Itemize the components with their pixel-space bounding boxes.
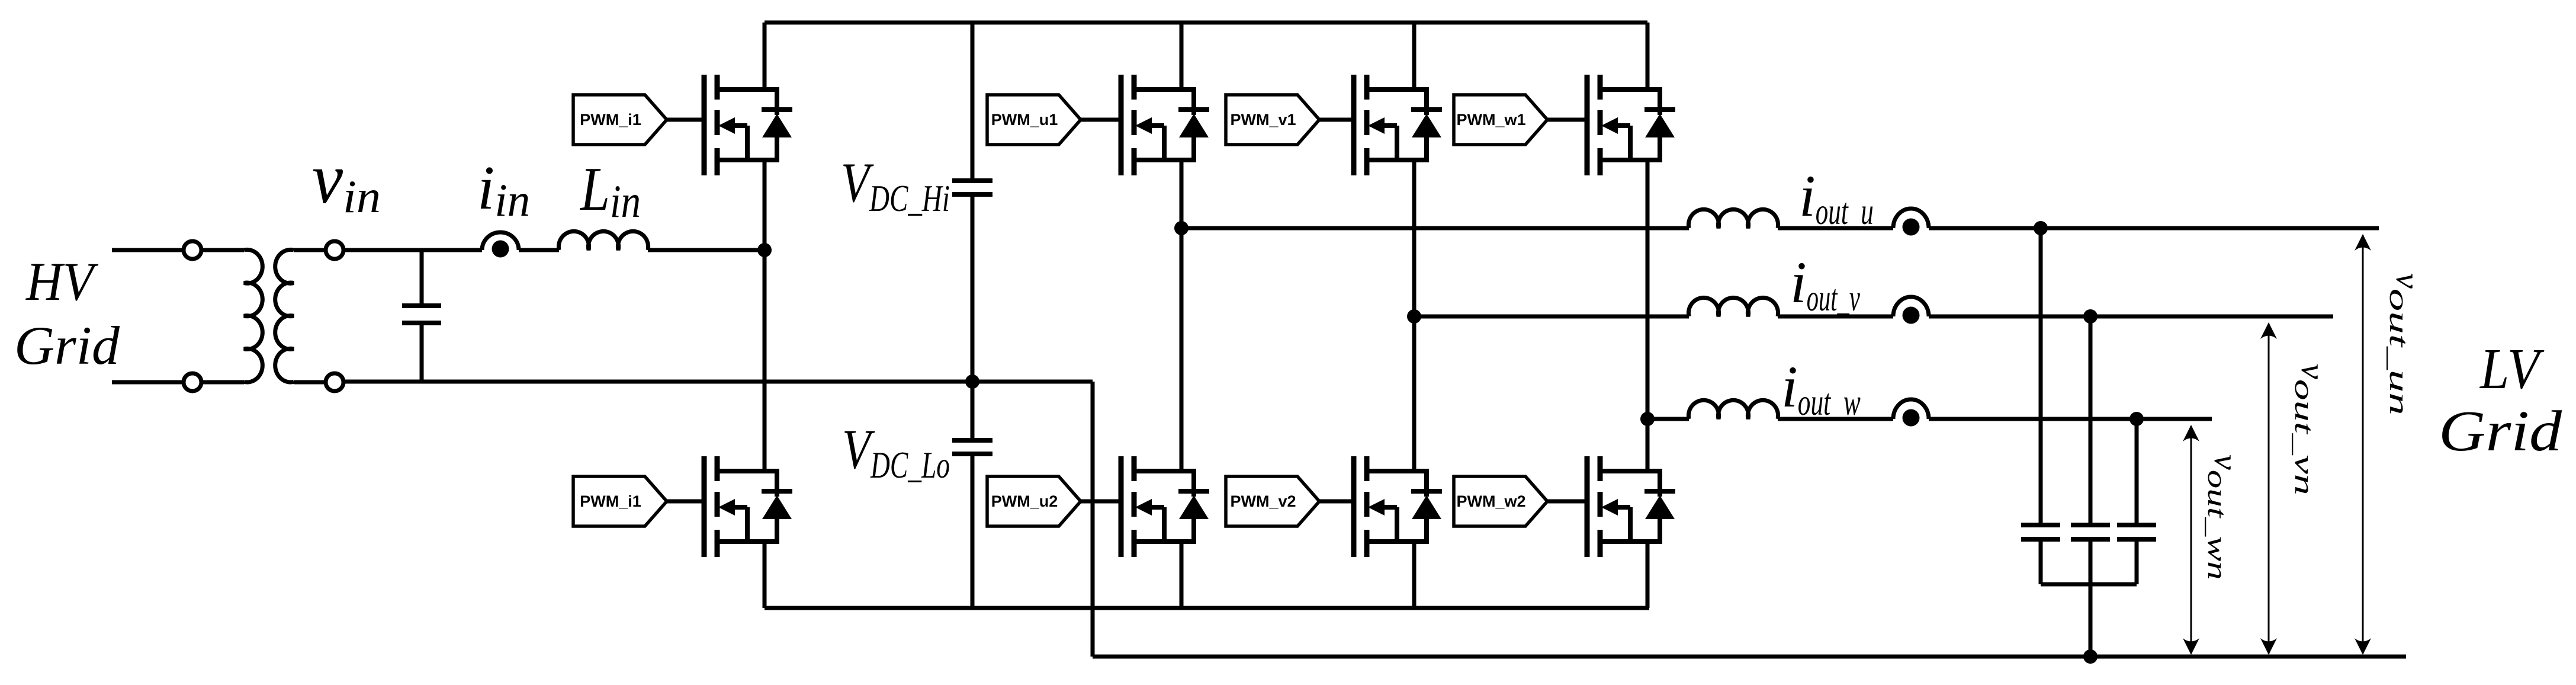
label v_out_wn (2202, 454, 2246, 580)
wire inductor to sensor v (1778, 315, 1893, 319)
wire source Q7 to phase node (1646, 160, 1650, 419)
wire source Q5 to phase node (1412, 160, 1417, 316)
current sensor i_in hop (482, 232, 519, 250)
node A junction (757, 243, 772, 257)
transistor Q3 u-phase high-side MOSFET (1121, 75, 1209, 175)
wire gate w2 (1547, 500, 1587, 504)
PWM_u2 tag (987, 476, 1081, 526)
svg-text:PWM_i1: PWM_i1 (580, 111, 641, 129)
wire top rail to C_DC_Hi (971, 23, 975, 178)
capacitor C_u lead bottom (2039, 542, 2043, 584)
PWM_w2 tag (1454, 476, 1547, 526)
PWM_v2 tag (1226, 476, 1319, 526)
wire source Q3 to phase node (1180, 160, 1184, 228)
wire gate i1 upper (667, 118, 704, 122)
wire secondary top to terminal (294, 248, 326, 252)
svg-text:LV: LV (2479, 337, 2545, 401)
wire drain Q7 to top rail (1646, 23, 1650, 89)
transistor Q8 w-phase low-side MOSFET (1587, 456, 1675, 557)
svg-text:HV: HV (25, 251, 99, 312)
capacitor C_in lead top (420, 250, 424, 303)
arrow v_out_wn (2183, 425, 2199, 655)
transistor Q5 v-phase high-side MOSFET (1354, 75, 1442, 175)
wire HV bottom lead (112, 380, 184, 385)
svg-text:vout_vn: vout_vn (2289, 364, 2333, 495)
svg-text:iout_v: iout_v (1790, 249, 1860, 319)
svg-text:PWM_u2: PWM_u2 (991, 492, 1058, 510)
capacitor C_w lead bottom (2135, 542, 2139, 584)
wire phase w to inductor (1647, 417, 1689, 421)
wire drain Q3 to top rail (1180, 23, 1184, 89)
wire source Q1 to node A (763, 160, 767, 250)
inductor L_in (558, 231, 648, 250)
label i_in (477, 153, 530, 226)
wire C_DC_Lo to bottom rail (971, 456, 975, 608)
node cap w junction (2129, 412, 2144, 426)
node phase w (1640, 412, 1655, 426)
wire sensor to L_in (519, 248, 559, 252)
svg-text:VDC_Hi: VDC_Hi (841, 151, 950, 219)
capacitor C_DC_Hi (952, 181, 993, 194)
transistor Q7 w-phase high-side MOSFET (1587, 75, 1675, 175)
wire secondary bottom to terminal (294, 380, 326, 385)
svg-text:vin: vin (312, 139, 381, 222)
wire drain Q2 to node A (763, 250, 767, 471)
transformer T1 secondary winding (275, 249, 294, 382)
wire gate u2 (1081, 500, 1121, 504)
label v_out_un (2384, 273, 2427, 415)
wire source Q4 to bottom rail (1180, 542, 1184, 608)
svg-text:VDC_Lo: VDC_Lo (842, 418, 950, 486)
wire phase u to inductor (1181, 226, 1689, 231)
PWM_w1 tag (1454, 95, 1547, 145)
label v_out_vn (2289, 364, 2333, 495)
wire midpoint drop (1091, 382, 1095, 657)
wire gate w1 (1547, 118, 1587, 122)
transistor Q6 v-phase low-side MOSFET (1354, 456, 1442, 557)
wire phase v to inductor (1414, 315, 1689, 319)
inductor L_u (1688, 209, 1778, 228)
capacitor C_u lead top (2039, 228, 2043, 523)
wire source Q6 to bottom rail (1412, 542, 1417, 608)
arrow v_out_vn (2260, 322, 2277, 655)
label V_DC_Hi (841, 151, 950, 219)
transistor Q2 lower input MOSFET (704, 456, 792, 557)
wire cap bottom bus (2041, 582, 2137, 587)
wire sensor to output u (1929, 226, 2379, 231)
capacitor C_in lead bottom (420, 325, 424, 382)
wire HV top to primary (201, 248, 244, 252)
capacitor C_w lead top (2135, 419, 2139, 523)
svg-text:iin: iin (477, 153, 530, 226)
wire source Q8 to bottom rail (1646, 542, 1650, 608)
capacitor C_DC_Lo (952, 440, 993, 454)
wire sensor to output v (1929, 315, 2333, 319)
svg-text:vout_un: vout_un (2384, 273, 2427, 415)
svg-text:PWM_u1: PWM_u1 (991, 111, 1058, 129)
wire HV bottom to primary (201, 380, 244, 385)
capacitor C_in (402, 306, 441, 323)
label V_DC_Lo (842, 418, 950, 486)
current sensor i_out_u dot (1903, 219, 1920, 236)
current sensor i_out_v hop (1893, 297, 1929, 316)
capacitor C_v (2071, 525, 2110, 539)
wire drain Q5 to top rail (1412, 23, 1417, 89)
wire drain Q6 to phase node (1412, 316, 1417, 471)
svg-text:PWM_v2: PWM_v2 (1230, 492, 1296, 510)
wire top DC rail (765, 21, 1647, 25)
wire inductor to sensor w (1778, 417, 1893, 421)
node phase v (1407, 309, 1421, 324)
label i_out_w (1781, 354, 1861, 423)
wire drain Q4 to phase node (1180, 228, 1184, 471)
PWM_i1 tag upper (573, 95, 667, 145)
current sensor i_out_w dot (1903, 409, 1920, 427)
capacitor C_w (2117, 525, 2156, 539)
node neutral junction (2083, 649, 2098, 664)
node cap v junction (2083, 309, 2098, 324)
node phase u (1174, 221, 1189, 235)
svg-text:PWM_v1: PWM_v1 (1230, 111, 1296, 129)
arrow v_out_un (2355, 234, 2371, 655)
svg-text:Grid: Grid (14, 315, 120, 376)
wire C_DC_Hi to midpoint (971, 197, 975, 382)
current sensor i_in dot (492, 241, 509, 258)
wire gate u1 (1081, 118, 1121, 122)
svg-text:PWM_w1: PWM_w1 (1456, 111, 1525, 129)
wire cap bus to neutral (2089, 584, 2093, 657)
svg-text:Lin: Lin (579, 154, 641, 227)
wire HV top lead (112, 248, 184, 252)
terminal v_in top (326, 241, 343, 259)
svg-text:PWM_i1: PWM_i1 (580, 492, 641, 510)
svg-text:PWM_w2: PWM_w2 (1456, 492, 1525, 510)
current sensor i_out_v dot (1903, 307, 1920, 324)
terminal v_in bottom (326, 373, 343, 391)
wire v_in top to sensor (343, 248, 482, 252)
label v_in (312, 139, 381, 222)
svg-text:iout_u: iout_u (1799, 163, 1874, 232)
inductor L_w (1688, 400, 1778, 419)
transistor Q4 u-phase low-side MOSFET (1121, 456, 1209, 557)
wire L_in to node A (648, 248, 765, 252)
node DC midpoint (965, 374, 979, 389)
wire inductor to sensor u (1778, 226, 1893, 231)
wire gate i1 lower (667, 500, 704, 504)
wire sensor to output w (1929, 417, 2212, 421)
label L_in (579, 154, 641, 227)
terminal HV top (184, 241, 201, 259)
capacitor C_v lead top (2089, 316, 2093, 523)
PWM_i1 tag lower (573, 476, 667, 526)
capacitor C_u (2021, 525, 2060, 539)
HV Grid label (14, 251, 120, 376)
terminal HV bottom (184, 373, 201, 391)
wire v_in bottom to DC midpoint (343, 380, 1093, 384)
wire bottom DC rail (765, 606, 1649, 610)
wire midpoint to C_DC_Lo (971, 382, 975, 438)
current sensor i_out_w hop (1893, 399, 1929, 419)
transformer T1 primary winding (244, 249, 262, 382)
LV Grid label (2439, 337, 2562, 463)
PWM_u1 tag (987, 95, 1081, 145)
node cap u junction (2034, 221, 2048, 235)
wire drain Q8 to phase node (1646, 419, 1650, 471)
transistor Q1 upper input MOSFET (704, 75, 792, 175)
wire neutral bus (1093, 655, 2406, 659)
svg-text:Grid: Grid (2439, 399, 2562, 463)
label i_out_v (1790, 249, 1860, 319)
capacitor C_v lead bottom (2089, 542, 2093, 584)
wire gate v1 (1319, 118, 1354, 122)
wire source Q2 to bottom rail (763, 542, 767, 608)
current sensor i_out_u hop (1893, 209, 1929, 228)
svg-text:iout_w: iout_w (1781, 354, 1861, 423)
wire gate v2 (1319, 500, 1354, 504)
inductor L_v (1688, 297, 1778, 316)
PWM_v1 tag (1226, 95, 1319, 145)
label i_out_u (1799, 163, 1874, 232)
svg-text:vout_wn: vout_wn (2202, 454, 2246, 580)
wire drain Q1 to top rail (763, 23, 767, 89)
